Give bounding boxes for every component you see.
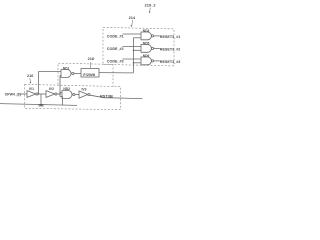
svg-text:OPW4_(1): OPW4_(1) [5, 92, 21, 96]
svg-text:F/2W8: F/2W8 [83, 72, 96, 77]
svg-text:IV2: IV2 [49, 87, 54, 91]
svg-text:ND1: ND1 [63, 66, 70, 70]
svg-text:RESET3_#3: RESET3_#3 [160, 60, 181, 64]
svg-text:ND5: ND5 [143, 41, 150, 45]
svg-text:216: 216 [27, 74, 33, 78]
svg-text:RESET3_#2: RESET3_#2 [160, 48, 181, 52]
svg-text:214: 214 [129, 16, 136, 20]
svg-text:RST3B: RST3B [100, 93, 113, 98]
svg-text:218: 218 [88, 57, 94, 61]
svg-text:IV1: IV1 [29, 87, 34, 91]
svg-text:IV3: IV3 [82, 88, 87, 92]
svg-text:CODE_#3: CODE_#3 [107, 59, 124, 63]
svg-text:219_2: 219_2 [145, 3, 157, 8]
svg-text:ND2: ND2 [63, 87, 70, 91]
svg-text:MB: MB [39, 103, 45, 107]
svg-text:RESET3_#1: RESET3_#1 [160, 35, 181, 39]
svg-text:CODE_#2: CODE_#2 [107, 47, 124, 51]
svg-text:ND4: ND4 [143, 29, 150, 33]
svg-text:CODE_#1: CODE_#1 [107, 34, 124, 38]
svg-text:ND6: ND6 [143, 54, 150, 58]
